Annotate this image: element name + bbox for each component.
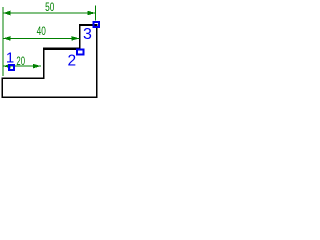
polyline segment thickening: middle step edge: [43, 48, 80, 50]
dimension 40: right arrow: [71, 36, 79, 41]
svg-text:50: 50: [45, 2, 54, 14]
vertex grip square 2: [77, 50, 84, 55]
polyline segment thickening: top step edge: [79, 24, 97, 26]
extension line right (dim 50): [94, 6, 96, 21]
svg-text:40: 40: [37, 26, 46, 38]
dimension 40: left arrow: [3, 36, 10, 41]
dimension 20: left arrow: [3, 64, 10, 69]
dimension 20: line: [3, 65, 41, 67]
dimension 20: right arrow: [33, 64, 41, 69]
polyline staircase contour (vertices 1-2-3 step profile): [2, 25, 97, 98]
vertex grip square 3: [94, 22, 99, 27]
extension line left (common, x=3): [2, 7, 4, 76]
svg-text:1: 1: [6, 50, 14, 67]
dimension 50: left arrow: [3, 11, 10, 16]
background: [0, 0, 100, 100]
dimension 40: line: [3, 37, 79, 39]
svg-text:2: 2: [67, 52, 76, 69]
dimension 50: right arrow: [87, 11, 95, 16]
svg-text:3: 3: [83, 26, 92, 43]
svg-text:20: 20: [16, 56, 25, 68]
vertex grip square 1: [9, 65, 14, 70]
dimension 50: line: [3, 12, 95, 14]
